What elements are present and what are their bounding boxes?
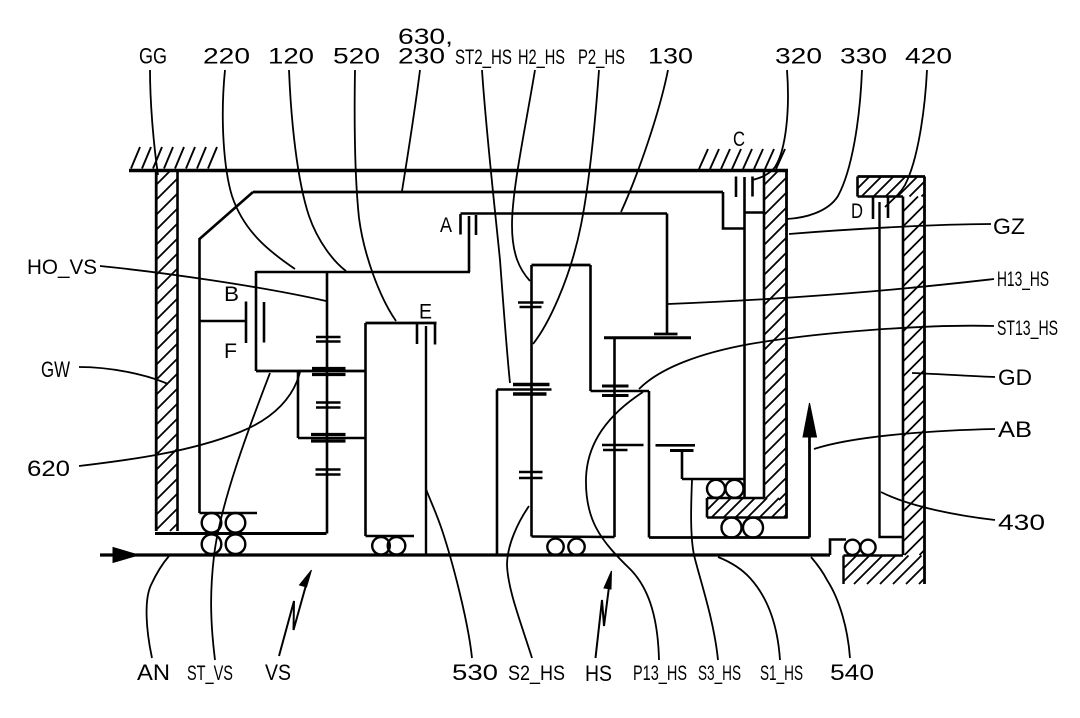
clutch B/F drum bottom edge <box>256 370 366 373</box>
S2 carrier line <box>497 388 552 391</box>
clutch E bearing shelf <box>366 535 415 538</box>
svg-text:ST2_HS: ST2_HS <box>455 45 512 69</box>
output wall GD top-bar hatch <box>858 177 925 197</box>
leader HO_VS <box>100 266 326 301</box>
S2 drum left edge <box>496 390 499 557</box>
leader ST_VS <box>211 373 270 660</box>
housing left wall hatch <box>156 170 178 531</box>
svg-text:AN: AN <box>137 660 170 685</box>
svg-text:GD: GD <box>998 365 1032 390</box>
VS gear mesh 5 bottom bar <box>316 473 341 476</box>
leader 430 <box>881 492 995 520</box>
leader GZ <box>789 224 991 234</box>
zigzag arrow VS <box>279 578 308 656</box>
svg-text:S1_HS: S1_HS <box>760 661 803 685</box>
inner drum left vertical <box>198 238 201 513</box>
ring H2_HS bracket top <box>532 264 591 267</box>
input shaft step at right <box>830 540 846 556</box>
svg-text:C: C <box>733 128 745 151</box>
HS mesh sun2 upper bar b <box>520 306 542 309</box>
HS mesh P13 bar b <box>602 394 629 397</box>
HS mesh sun2 upper bar a <box>518 301 544 304</box>
leader GD <box>912 373 995 377</box>
housing right intermediate wall hatch <box>764 170 787 500</box>
svg-text:420: 420 <box>905 44 952 69</box>
output wall GD foot block top edge <box>844 554 904 557</box>
bearing block under GZ wall left edge <box>706 498 709 518</box>
svg-text:H2_HS: H2_HS <box>518 45 565 69</box>
svg-text:H13_HS: H13_HS <box>997 267 1049 291</box>
output wall GD top-bar bottom edge <box>858 195 904 198</box>
HS mesh S2 thick bar a <box>513 383 550 386</box>
sun shaft corner shelf <box>532 535 615 538</box>
leader AN <box>147 556 169 658</box>
clutch B/F feed arm <box>200 320 247 323</box>
HS mesh P13 bar a <box>602 385 629 388</box>
input arrow head AN <box>113 548 139 563</box>
svg-text:130: 130 <box>648 44 693 69</box>
svg-text:GZ: GZ <box>993 214 1025 239</box>
clutch B inner plate <box>263 302 266 343</box>
output vertical to AB <box>648 391 651 538</box>
clutch D inner plate <box>887 198 890 219</box>
bearing block under GZ wall bottom edge <box>707 516 788 519</box>
output wall GD inner edge <box>902 197 905 556</box>
input bearing roller 2 <box>226 513 246 533</box>
HS bearing roller 1 <box>547 539 563 555</box>
clutch A hub shaft <box>468 216 471 272</box>
output wall GD top-bar left edge <box>856 177 859 197</box>
clutch A drum top line <box>256 271 470 274</box>
VS gear mesh 4 bottom bar <box>311 439 346 442</box>
housing bottom shell line <box>155 532 327 535</box>
svg-text:220: 220 <box>203 44 250 69</box>
leader 330 <box>787 70 862 219</box>
VS gear mesh 3 bottom bar <box>316 406 341 409</box>
leader AB <box>814 429 995 449</box>
leader ST13_HS <box>639 326 994 389</box>
sun S1 bar b <box>670 449 694 452</box>
HS mesh lower bar b <box>519 477 543 480</box>
svg-text:HS: HS <box>585 661 612 686</box>
sun S1 stem <box>681 451 684 480</box>
clutch D outer plate <box>872 198 875 220</box>
HS mesh S2 thick bar b <box>513 392 547 395</box>
leader P2_HS <box>533 70 599 344</box>
clutch E bearing roller 1 <box>372 537 390 555</box>
VS gear mesh 4 top bar <box>311 433 346 436</box>
housing GG top wall <box>129 169 788 172</box>
input bearing roller 4 <box>226 534 246 554</box>
inner drum step down at right <box>723 192 745 229</box>
leader S1_HS <box>718 557 780 660</box>
svg-text:E: E <box>419 301 432 324</box>
S1 bearing shelf <box>682 478 745 481</box>
leader 220 <box>223 70 295 269</box>
input bearing roller 3 <box>202 534 222 554</box>
clutch E drum top edge <box>366 322 437 325</box>
leader 120 <box>289 70 346 271</box>
svg-text:430: 430 <box>998 510 1045 535</box>
svg-text:230: 230 <box>398 44 445 69</box>
leader 620 <box>79 372 300 466</box>
zigzag arrow HS <box>596 579 611 658</box>
svg-text:B: B <box>224 283 239 306</box>
svg-text:GG: GG <box>139 44 167 69</box>
drum line from clutch A <box>461 212 668 215</box>
svg-text:P13_HS: P13_HS <box>633 661 687 685</box>
svg-text:D: D <box>851 200 863 223</box>
clutch C outer plate <box>735 177 738 198</box>
VS gear mesh 1 bottom bar <box>316 340 341 343</box>
carrier ST13_HS top bar <box>604 336 691 339</box>
gear 620 box left edge <box>297 371 300 438</box>
leader 520 <box>355 70 396 321</box>
ring gear H2_HS bar <box>654 333 678 336</box>
sun S3 bar b <box>603 449 628 452</box>
svg-text:320: 320 <box>775 44 822 69</box>
svg-text:F: F <box>224 340 237 363</box>
VS gear mesh 2 bottom bar <box>312 373 346 376</box>
leader 540 <box>811 557 850 658</box>
svg-text:ST13_HS: ST13_HS <box>997 316 1058 340</box>
svg-text:S3_HS: S3_HS <box>698 661 741 685</box>
leader H13_HS <box>668 279 994 304</box>
leader S2_HS <box>507 506 532 658</box>
clutch E inner plate <box>434 324 437 345</box>
output arrow AB shaft <box>808 437 811 538</box>
clutch C drum vertical 320 <box>743 177 746 498</box>
leader 530 <box>426 489 472 658</box>
ground hatch above top wall left <box>131 147 217 169</box>
clutch B outer plate <box>245 302 248 344</box>
output wall GD outer edge <box>923 177 926 585</box>
HS mesh lower bar a <box>519 471 543 474</box>
lower bearing roller 1 <box>722 518 742 538</box>
svg-text:120: 120 <box>268 44 314 69</box>
svg-text:GW: GW <box>41 357 70 382</box>
svg-text:P2_HS: P2_HS <box>578 45 625 69</box>
VS gear mesh 3 top bar <box>316 401 341 404</box>
leader ST2_HS <box>482 70 510 383</box>
input shaft AN line <box>100 553 830 556</box>
output wall GD column hatch <box>903 197 925 556</box>
shaft to ring gear H2_HS vertical <box>666 214 669 334</box>
bracket right leg 130 <box>589 265 592 391</box>
leader S3_HS <box>691 480 718 660</box>
svg-text:620: 620 <box>27 456 70 481</box>
S1 bearing roller 1 <box>707 480 725 498</box>
output line AB horizontal <box>649 536 810 539</box>
housing right intermediate wall GZ inner edge <box>763 170 766 498</box>
S1 bearing roller 2 <box>726 480 744 498</box>
clutch E drum left edge <box>364 323 367 536</box>
VS gear mesh 2 top bar <box>312 367 346 370</box>
svg-text:AB: AB <box>998 417 1032 442</box>
leader P13_HS <box>586 392 659 660</box>
leader GW <box>79 367 168 384</box>
clutch A inner plate <box>475 215 478 235</box>
housing left wall GW outer edge <box>155 170 158 531</box>
output wall GD foot block left edge <box>842 556 844 585</box>
svg-text:A: A <box>440 214 452 237</box>
svg-text:330: 330 <box>840 44 887 69</box>
lower bearing roller 2 <box>743 518 763 538</box>
svg-text:520: 520 <box>333 44 380 69</box>
clutch E bearing roller 2 <box>388 537 406 555</box>
zigzag arrow VS head <box>300 570 312 587</box>
svg-text:530: 530 <box>452 660 498 685</box>
VS gear mesh 1 top bar <box>316 336 341 339</box>
leader GG <box>150 70 158 175</box>
housing left wall GW inner edge <box>176 170 179 531</box>
VS gear mesh 5 top bar <box>316 468 341 471</box>
clutch C inner plate <box>751 177 754 197</box>
leader 420 <box>885 70 927 207</box>
output bearing roller right 2 <box>860 540 875 555</box>
clutch E hub shaft 530 <box>425 326 427 555</box>
sun S3 bar a <box>602 444 644 447</box>
sun shaft S2_HS vertical <box>530 265 533 537</box>
inner drum chamfer <box>200 192 254 239</box>
drum ledge 330 <box>745 211 765 214</box>
leader 630/230 <box>402 70 420 191</box>
leader 320 <box>752 70 788 180</box>
output wall GD top edge <box>858 175 926 178</box>
svg-text:S2_HS: S2_HS <box>508 661 565 685</box>
output arrow AB head <box>803 403 817 437</box>
bearing block under GZ wall top edge <box>707 497 764 500</box>
clutch E outer plate <box>416 324 419 344</box>
clutch B/F drum left edge <box>255 271 258 371</box>
zigzag arrow HS head <box>604 571 612 589</box>
inner drum top line 230/630 <box>253 191 723 194</box>
output bearing roller right 1 <box>845 540 860 555</box>
sun S1 bar a <box>656 444 696 447</box>
carrier lower line <box>591 390 650 393</box>
gear 620 box bottom edge <box>298 437 366 440</box>
input bearing roller 1 <box>202 513 222 533</box>
VS gear shaft vertical 120 <box>326 272 329 534</box>
bearing block under GZ wall hatch <box>707 498 787 518</box>
leader 130 <box>621 70 668 212</box>
carrier ST13_HS stem <box>613 338 616 537</box>
ground hatch above top wall right (over clutch C) <box>699 149 785 169</box>
svg-text:ST_VS: ST_VS <box>187 661 233 685</box>
housing right intermediate wall GZ outer edge <box>785 170 788 518</box>
svg-text:HO_VS: HO_VS <box>27 255 97 279</box>
output drum shaft 430 <box>880 202 904 537</box>
clutch A outer plate <box>459 214 462 235</box>
output wall GD foot block hatch <box>844 556 925 585</box>
carrier ST_VS shelf <box>200 512 258 515</box>
leader H2_HS <box>512 70 535 281</box>
svg-text:VS: VS <box>265 660 291 685</box>
HS bearing roller 2 <box>568 539 584 555</box>
svg-text:540: 540 <box>830 660 874 685</box>
